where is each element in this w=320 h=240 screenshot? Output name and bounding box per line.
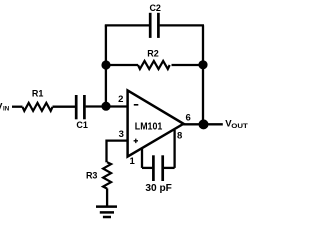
wire C2 to top right corner bbox=[160, 24, 204, 26]
svg-text:LM101: LM101 bbox=[135, 122, 163, 133]
wire pin 3 down to R3 bbox=[105, 140, 107, 163]
svg-text:R1: R1 bbox=[32, 89, 44, 99]
svg-text:C1: C1 bbox=[76, 120, 88, 130]
wire R1 to C1 bbox=[53, 106, 76, 108]
svg-text:R3: R3 bbox=[86, 171, 98, 181]
resistor R2 bbox=[138, 61, 170, 69]
svg-text:3: 3 bbox=[119, 129, 124, 140]
wire pin 1 lead bbox=[141, 148, 143, 168]
wire 30pF left lead bbox=[142, 167, 152, 169]
capacitor C3 30 pF bbox=[153, 155, 162, 181]
wire R3 to ground bbox=[106, 188, 108, 206]
svg-text:1: 1 bbox=[130, 156, 136, 167]
op-amp U1 LM101 bbox=[128, 90, 184, 156]
svg-text:8: 8 bbox=[177, 131, 182, 142]
svg-text:IN: IN bbox=[3, 105, 10, 112]
wire right vertical bbox=[202, 25, 204, 124]
plus sign non-inverting input bbox=[134, 139, 138, 144]
node R2 left junction bbox=[101, 60, 110, 69]
svg-text:6: 6 bbox=[186, 112, 191, 123]
wire pin 8 lead bbox=[173, 130, 175, 168]
node output junction bbox=[199, 119, 209, 129]
wire output bbox=[183, 123, 223, 125]
wire top left to C2 bbox=[105, 24, 149, 26]
node VOUT label bbox=[225, 118, 248, 130]
capacitor C1 bbox=[76, 95, 84, 119]
svg-text:OUT: OUT bbox=[231, 123, 248, 130]
capacitor C2 bbox=[150, 13, 158, 38]
svg-text:C2: C2 bbox=[149, 3, 161, 13]
wire VIN lead bbox=[12, 106, 23, 108]
resistor R1 bbox=[23, 103, 53, 111]
wire R2 right lead bbox=[172, 64, 204, 66]
node R2 right junction bbox=[198, 60, 207, 69]
wire C1 to pin 2 bbox=[86, 105, 128, 107]
ground bbox=[96, 207, 117, 217]
wire pin 3 stub bbox=[106, 139, 128, 141]
svg-text:2: 2 bbox=[118, 94, 123, 105]
svg-text:R2: R2 bbox=[147, 49, 159, 59]
wire R2 left lead bbox=[106, 64, 138, 66]
node VIN label bbox=[0, 101, 10, 112]
wire left feedback vertical bbox=[105, 25, 107, 106]
wire 30pF right lead bbox=[164, 167, 175, 169]
node A input junction bbox=[101, 102, 110, 111]
resistor R3 bbox=[103, 162, 111, 188]
minus sign inverting input bbox=[134, 104, 139, 106]
svg-text:30 pF: 30 pF bbox=[145, 182, 172, 194]
